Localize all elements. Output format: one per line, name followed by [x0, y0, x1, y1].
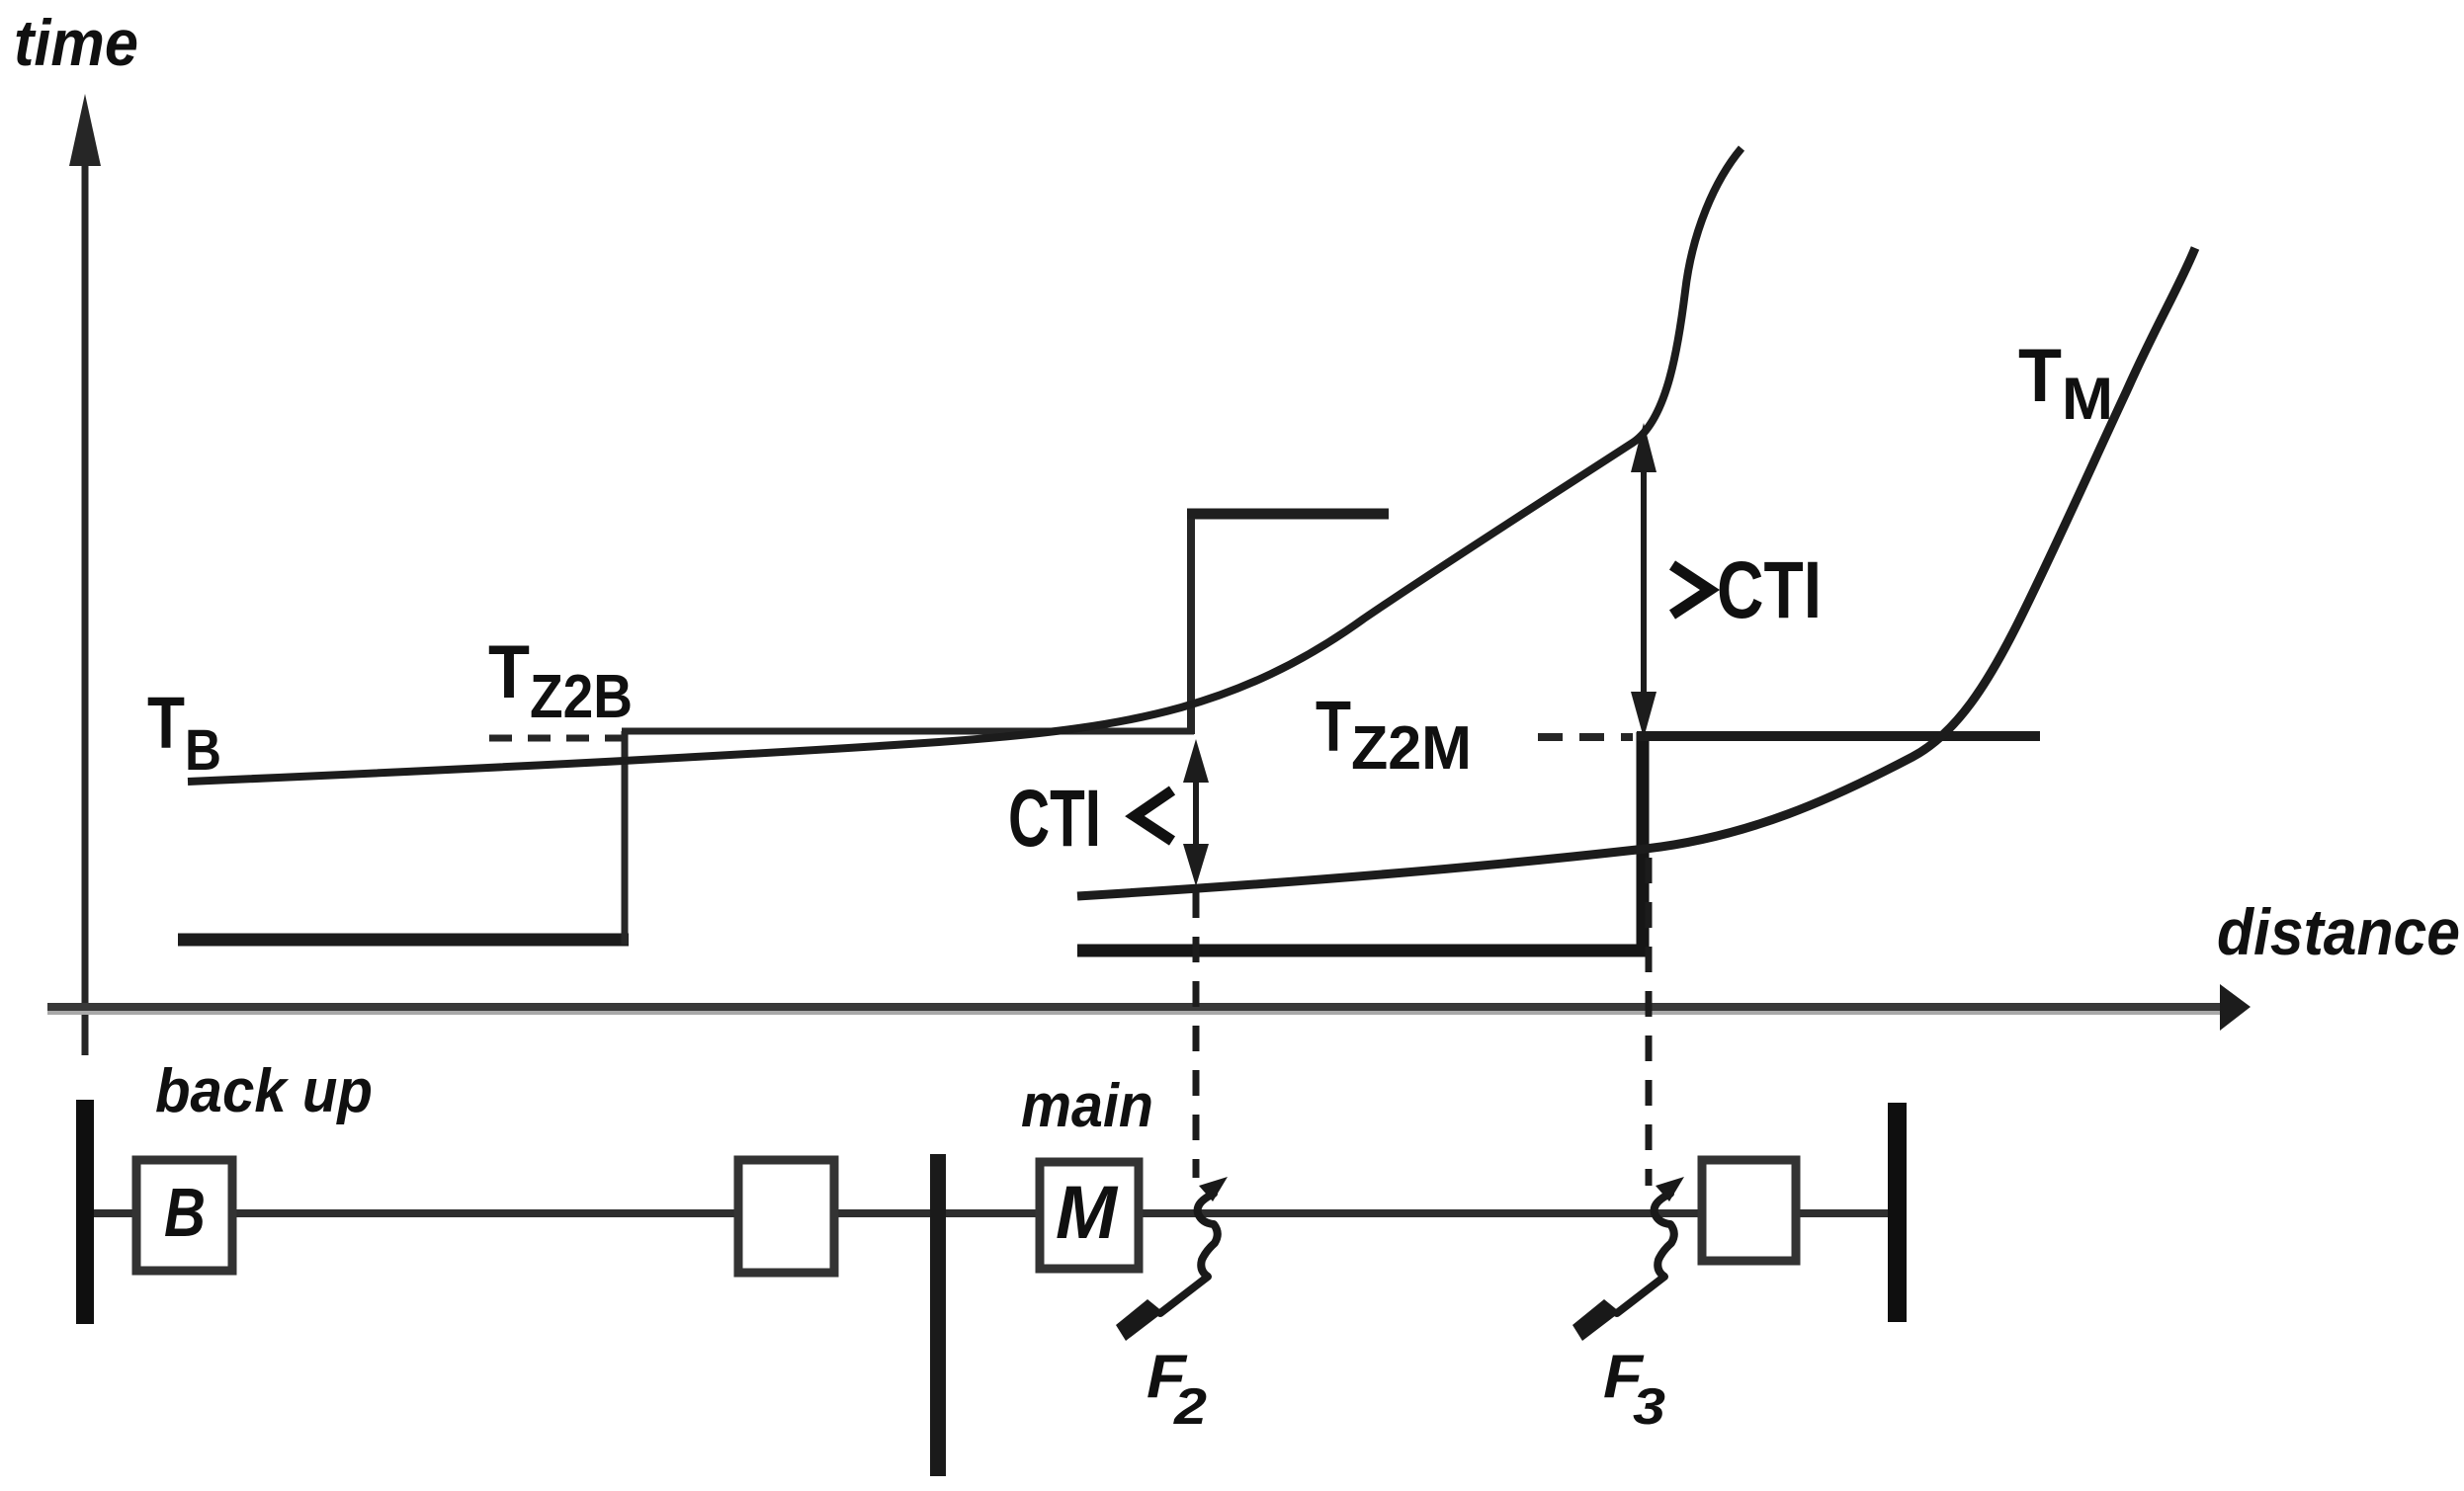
- svg-text:T: T: [1316, 688, 1351, 767]
- svg-text:M: M: [2062, 366, 2113, 432]
- svg-text:3: 3: [1633, 1378, 1665, 1436]
- svg-text:T: T: [147, 682, 185, 764]
- svg-text:back up: back up: [155, 1057, 373, 1125]
- svg-text:time: time: [14, 6, 138, 79]
- svg-text:Z2M: Z2M: [1351, 714, 1472, 783]
- svg-text:T: T: [2018, 334, 2062, 418]
- svg-text:Z2B: Z2B: [530, 663, 633, 731]
- svg-text:M: M: [1056, 1171, 1119, 1255]
- svg-text:CTI: CTI: [1717, 545, 1822, 635]
- svg-text:T: T: [488, 630, 530, 714]
- svg-text:main: main: [1021, 1072, 1153, 1140]
- svg-text:2: 2: [1173, 1378, 1207, 1436]
- svg-text:CTI: CTI: [1008, 774, 1101, 864]
- svg-text:B: B: [164, 1174, 206, 1251]
- svg-text:distance: distance: [2217, 895, 2460, 968]
- svg-text:B: B: [185, 718, 221, 783]
